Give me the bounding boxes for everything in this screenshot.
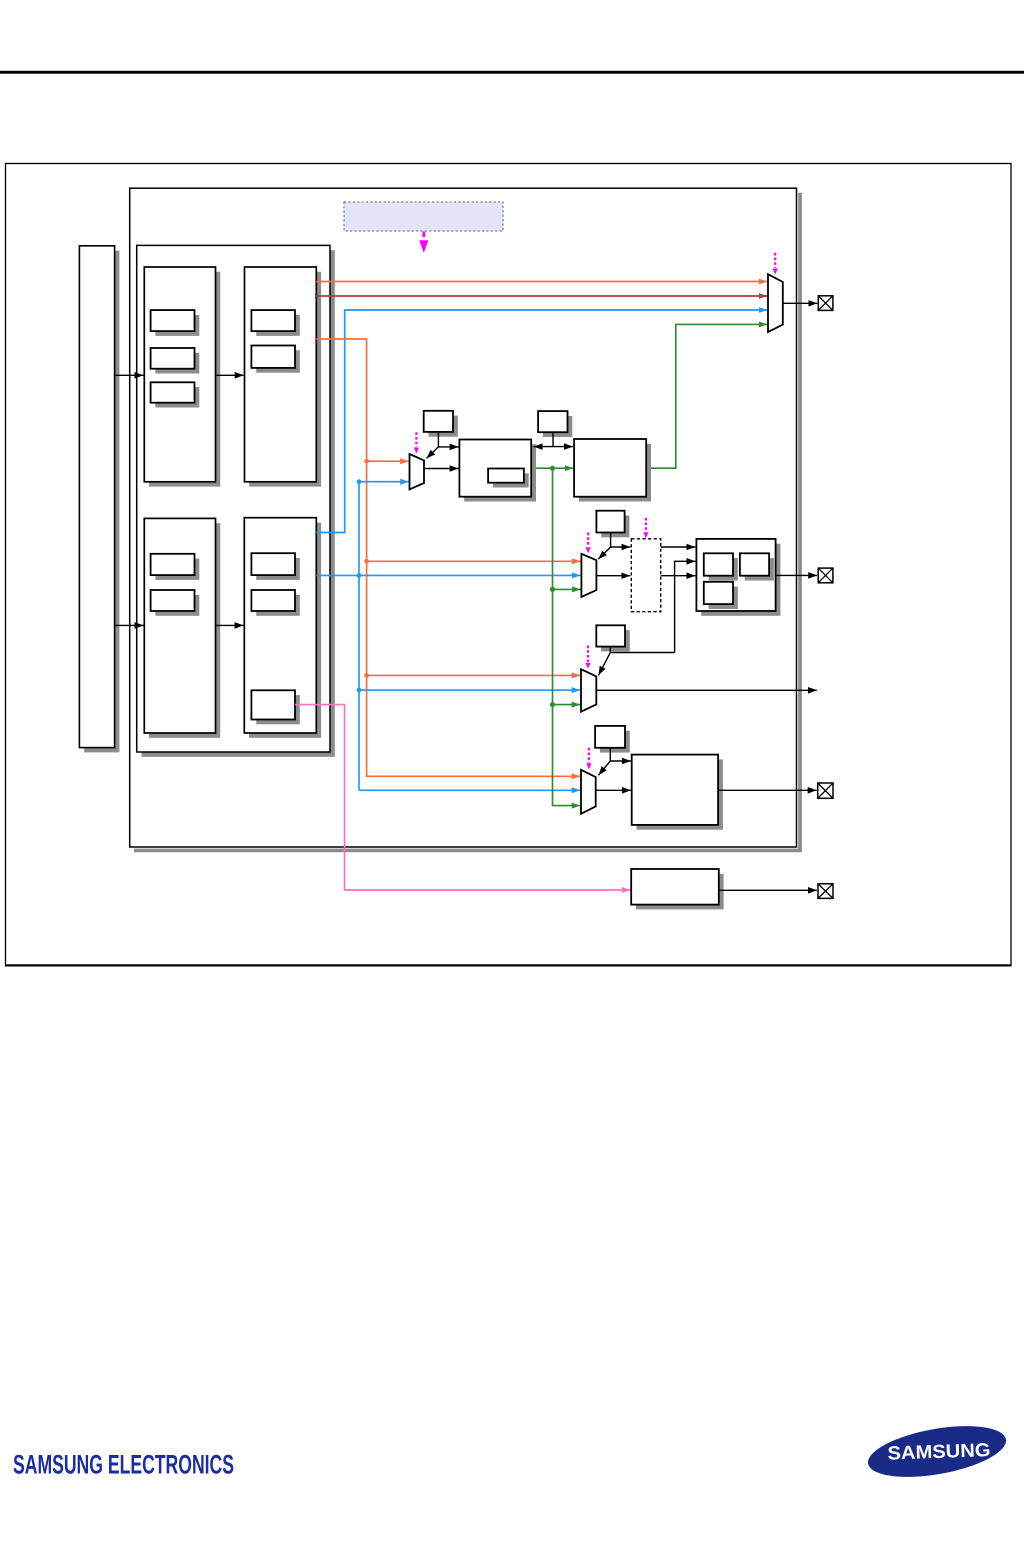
junction: green at mux M3 branch xyxy=(550,702,555,707)
box1 inner register xyxy=(488,469,529,488)
wire: blue feed from sub-block D to mux M2 xyxy=(316,574,580,576)
input bus block (left tall rectangle) xyxy=(79,246,119,753)
output pad X0 xyxy=(818,296,833,311)
control arrow dashed box xyxy=(643,518,648,539)
output pad X3 xyxy=(818,884,833,899)
junction: blue at mux M2 feed crossing xyxy=(357,573,362,578)
register box D3 xyxy=(251,690,299,724)
wire: pink line from D3 to box5 xyxy=(295,705,630,890)
control arrow mux M2 xyxy=(586,533,591,554)
junction: green at mux M2 branch xyxy=(550,587,555,592)
outer page border xyxy=(6,164,1012,966)
register box A2 xyxy=(151,348,200,374)
divider box R3 (above mux M2) xyxy=(596,511,629,538)
divider box R5 (above mux M4) xyxy=(595,726,630,753)
outer page border bottom thick edge xyxy=(5,964,1012,966)
svg-text:SAMSUNG: SAMSUNG xyxy=(887,1440,991,1465)
sub-block C (lower-left column) xyxy=(144,518,220,737)
register box C1 xyxy=(151,554,200,580)
wire: R4 junction lines xyxy=(599,647,675,676)
wire: green box1 to box2 xyxy=(531,467,573,469)
wire: mux M4 output to box4 xyxy=(596,789,631,791)
Samsung oval logo xyxy=(864,1417,1010,1486)
output pad X2 xyxy=(818,783,833,798)
diagram frame shadow xyxy=(134,193,802,853)
wire: green branch to mux M2 xyxy=(553,588,581,590)
wire: dark red line B to mux M0 xyxy=(316,295,767,297)
output pad X1 xyxy=(818,568,833,583)
sub-block B (upper-right column) xyxy=(245,267,322,487)
mux M1 xyxy=(410,454,425,489)
wire: blue line D to mux M0 xyxy=(316,310,767,533)
control arrow mux M0 xyxy=(773,253,778,275)
control arrow mux M4 xyxy=(586,748,591,770)
junction: orange at mux M1 branch xyxy=(364,459,369,464)
wire: blue distribution trunk xyxy=(359,482,409,791)
wire: R2 double arrow to box1 and box2 xyxy=(534,432,573,446)
control dashed box (lavender) xyxy=(344,202,503,231)
sub-block D (lower-right column) xyxy=(244,518,321,738)
wire: arrow bus to sub-block A xyxy=(115,374,144,376)
wire: R5 to box4 and mux M4 xyxy=(599,748,631,775)
wire: orange line B to mux M0 xyxy=(316,281,767,283)
box3 inner register 1 xyxy=(704,553,738,580)
wire: mux M2 output to dashed box xyxy=(596,575,630,577)
junction: orange at mux M3 branch xyxy=(364,673,369,678)
control arrow mux M3 xyxy=(585,646,590,669)
control arrow from lavender box xyxy=(419,232,428,253)
wire: arrow sub-block A to sub-block B xyxy=(216,374,244,376)
wire: arrow bus to sub-block C xyxy=(115,624,144,626)
wire: arrow sub-block C to sub-block D xyxy=(216,624,244,626)
divider box R4 (above mux M3) xyxy=(596,625,630,651)
wire: orange branch to mux M1 xyxy=(367,460,409,462)
wire: box3 output to pad xyxy=(776,574,818,576)
wire: mux M1 output to box1 xyxy=(424,468,459,470)
divider box R2 (above box2) xyxy=(538,411,572,437)
wire: dashed box upper output to box3 xyxy=(661,546,696,548)
wire: box4 output to pad xyxy=(718,789,817,791)
wire: green branch to mux M3 xyxy=(553,704,581,706)
wire: mux M0 output to pad xyxy=(783,302,818,304)
register box A1 xyxy=(151,310,200,336)
mux M4 xyxy=(581,770,596,814)
svg-text:SAMSUNG ELECTRONICS: SAMSUNG ELECTRONICS xyxy=(13,1450,234,1480)
wire: orange distribution trunk xyxy=(316,339,580,776)
wire: blue branch to mux M3 xyxy=(359,689,580,691)
wire: dashed box lower output to box3 xyxy=(661,575,696,577)
register box C2 xyxy=(151,590,200,616)
box5 (RTC block) xyxy=(631,869,723,909)
register box D2 xyxy=(251,590,299,616)
diagram frame xyxy=(130,188,797,847)
wire: R3 to dashed box and mux M2 xyxy=(598,533,630,560)
wire: R4 riser to box3 middle input xyxy=(675,561,696,652)
wire: R1 to box1 and mux M1 xyxy=(427,432,459,459)
wire: green trunk from PLL junction xyxy=(553,468,581,805)
wire: blue branch to mux M4 xyxy=(359,789,580,791)
wire: box5 output to pad xyxy=(719,889,817,891)
wire: orange branch to mux M3 xyxy=(367,674,581,676)
mux M0 xyxy=(768,274,783,332)
control arrow mux M1 xyxy=(414,432,419,453)
mux M3 xyxy=(581,669,596,712)
box3 (peripheral block) xyxy=(696,539,780,616)
register box D1 xyxy=(251,553,299,580)
register box B1 xyxy=(251,310,299,336)
register box A3 xyxy=(151,382,200,407)
register box B2 xyxy=(251,346,299,373)
divider box R1 (above mux M1) xyxy=(424,411,458,437)
wire: green box2 to mux M0 xyxy=(646,324,767,468)
box1 (PLL) xyxy=(459,440,536,502)
box4 (divider block) xyxy=(632,755,723,830)
junction: blue at mux M3 branch xyxy=(357,688,362,693)
dashed divider box xyxy=(631,539,660,612)
box2 (divider) xyxy=(574,439,651,502)
junction: blue at mux M1 branch xyxy=(357,479,362,484)
box3 inner register 3 xyxy=(704,582,738,609)
page top rule xyxy=(0,71,1024,74)
box3 inner register 2 xyxy=(740,553,774,580)
mux M2 xyxy=(581,554,596,597)
wire: orange branch to mux M2 xyxy=(367,560,581,562)
junction: green at box1 output xyxy=(550,466,555,471)
sub-block A (upper-left column) xyxy=(144,267,220,487)
wire: mux M3 long output arrow xyxy=(596,689,817,691)
clock source group box xyxy=(137,245,335,756)
junction: orange at mux M2 branch xyxy=(364,559,369,564)
